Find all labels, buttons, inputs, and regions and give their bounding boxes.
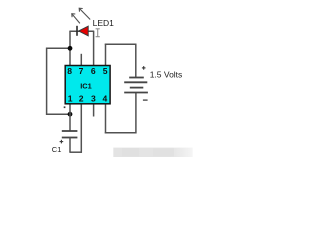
wire: pin 4 vertical (105, 104, 107, 134)
watermark band (113, 148, 192, 157)
wire: left rail vertical (46, 48, 48, 115)
svg-text:1.5 Volts: 1.5 Volts (150, 69, 183, 79)
wire: pin 5 vertical (105, 44, 107, 66)
text cursor I-beam (96, 29, 100, 37)
wire: battery negative lead vertical (135, 93, 137, 134)
LED1 diode cathode bar (76, 26, 78, 36)
svg-text:6: 6 (91, 66, 96, 76)
label IC1 (80, 81, 92, 90)
wire: C1 bottom lead vertical (69, 138, 71, 153)
wire: pin 6 / LED right leg vertical (93, 31, 95, 66)
wire: bottom-right horizontal pin 4 to battery (105, 132, 137, 134)
pin number 7 (79, 66, 84, 76)
wire: pin 1 vertical down to C1 (69, 104, 71, 131)
pin number 6 (91, 66, 96, 76)
LED1 emission arrow 1 (72, 14, 80, 24)
node A junction dot (68, 46, 73, 51)
wire: pin 3 stub (93, 104, 95, 117)
svg-text:4: 4 (103, 94, 108, 104)
pin number 2 (79, 94, 84, 104)
svg-text:C1: C1 (52, 145, 62, 154)
wire: pin 2 vertical (80, 104, 82, 153)
label C1 (52, 145, 62, 154)
svg-text:LED1: LED1 (93, 18, 115, 28)
svg-text:2: 2 (79, 94, 84, 104)
pin number 4 (103, 94, 108, 104)
svg-text:3: 3 (91, 94, 96, 104)
svg-text:IC1: IC1 (80, 81, 92, 90)
battery polarity - (143, 99, 148, 101)
wire: LED top horizontal (69, 30, 94, 32)
wire: top-right horizontal pin 5 to battery (105, 43, 137, 45)
svg-text:1: 1 (68, 94, 73, 104)
node B junction dot (68, 112, 73, 117)
wire: bottom horizontal C1 to pin 2 (69, 151, 82, 153)
pin number 1 (68, 94, 73, 104)
svg-text:8: 8 (67, 66, 72, 76)
pin number 3 (91, 94, 96, 104)
label LED1 (93, 18, 115, 28)
svg-text:7: 7 (79, 66, 84, 76)
battery BT1 1.5V cell plates (124, 78, 148, 93)
capacitor C1 (62, 131, 78, 138)
LED1 diode triangle (79, 26, 89, 36)
IC IC1 body (65, 66, 110, 104)
LED1 emission arrow 2 (79, 8, 90, 19)
battery polarity + (142, 66, 146, 70)
wire: pin 7 stub (80, 54, 82, 66)
wire: left rail to node A horizontal (46, 47, 70, 49)
svg-text:5: 5 (103, 66, 108, 76)
pin number 8 (67, 66, 72, 76)
pin number 5 (103, 66, 108, 76)
stray pixel speck near node B (64, 106, 66, 108)
wire: bottom-left horizontal to node B (46, 113, 70, 115)
wire: battery positive lead vertical (135, 44, 137, 77)
label 1.5 Volts (150, 69, 183, 79)
C1 polarity + (60, 140, 64, 144)
wire: pin 8 / LED left leg vertical (69, 31, 71, 66)
